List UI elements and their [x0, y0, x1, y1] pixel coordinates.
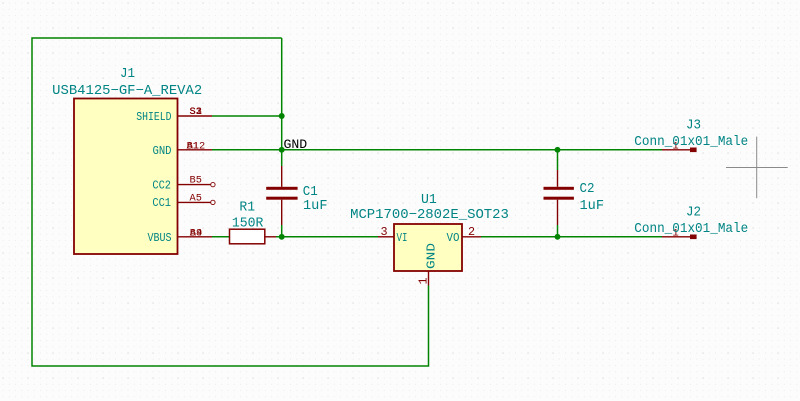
J1 pin SHIELD: [178, 115, 213, 117]
svg-text:Conn_01x01_Male: Conn_01x01_Male: [634, 135, 748, 150]
J1 pin CC2 (unconnected): [178, 184, 211, 186]
svg-text:GND: GND: [153, 144, 172, 158]
wire GND horizontal row: [212, 149, 662, 151]
svg-text:1uF: 1uF: [580, 199, 605, 214]
svg-text:2: 2: [468, 225, 475, 239]
R1 right pin stub: [265, 236, 276, 238]
capacitor C2: [557, 170, 559, 187]
junction GND/C2: [555, 147, 561, 153]
connector J2 pin: [662, 236, 690, 238]
junction VBUS/C1: [279, 234, 285, 240]
junction SHIELD/loop: [279, 113, 285, 119]
wire C1 bottom lead green: [281, 225, 283, 238]
svg-text:VBUS: VBUS: [148, 231, 172, 245]
svg-text:A5: A5: [190, 192, 202, 204]
svg-text:J2: J2: [686, 206, 701, 221]
svg-text:1: 1: [416, 277, 430, 284]
svg-text:S3: S3: [190, 106, 202, 118]
U1 pin 1 GND (bottom): [428, 271, 430, 286]
svg-text:J3: J3: [686, 119, 701, 134]
U1 pin 3 VI: [378, 236, 394, 238]
svg-text:GND: GND: [424, 243, 438, 269]
svg-text:Conn_01x01_Male: Conn_01x01_Male: [634, 222, 748, 237]
U1 pin 2 VO: [462, 236, 481, 238]
svg-text:B5: B5: [190, 175, 202, 187]
wire SHIELD horizontal: [212, 115, 282, 117]
svg-text:CC2: CC2: [152, 178, 171, 192]
svg-text:150R: 150R: [232, 216, 264, 231]
regulator U1 body: [394, 224, 462, 271]
wire vertical x=281.7 from top loop down to C1: [281, 38, 283, 166]
wire C2 top lead green: [557, 150, 559, 170]
wire C2 bottom lead green: [557, 225, 559, 237]
svg-text:A1: A1: [187, 141, 199, 153]
svg-text:R1: R1: [239, 201, 255, 216]
svg-text:VI: VI: [397, 231, 408, 245]
svg-text:A4: A4: [190, 228, 202, 240]
J1 pin VBUS: [178, 236, 213, 238]
svg-text:SHIELD: SHIELD: [136, 110, 171, 124]
connector J1 body: [74, 99, 178, 255]
capacitor C1: [281, 166, 283, 187]
resistor R1: [230, 229, 265, 244]
wire R1 to U1 VI: [276, 236, 378, 238]
svg-text:GND: GND: [284, 137, 308, 152]
svg-text:MCP1700−2802E_SOT23: MCP1700−2802E_SOT23: [350, 208, 509, 223]
svg-text:J1: J1: [120, 67, 135, 82]
svg-text:USB4125−GF−A_REVA2: USB4125−GF−A_REVA2: [52, 84, 202, 99]
junction GND/C1: [279, 147, 285, 153]
J1 pin CC1 (unconnected): [178, 201, 211, 203]
svg-text:U1: U1: [421, 193, 437, 208]
cursor crosshair: [756, 137, 758, 199]
junction VO/C2: [555, 234, 561, 240]
J1 pin GND: [178, 149, 213, 151]
svg-text:1uF: 1uF: [303, 199, 328, 214]
svg-text:VO: VO: [447, 231, 460, 245]
wire loop: top horizontal, left vertical, bottom horizontal, riser to U1 GND: [32, 38, 429, 366]
connector J3 pin: [662, 149, 690, 151]
svg-text:C2: C2: [580, 182, 595, 197]
svg-text:CC1: CC1: [152, 196, 171, 210]
wire U1 VO to J2: [481, 236, 662, 238]
svg-text:3: 3: [380, 225, 387, 239]
wire VBUS to R1: [212, 236, 230, 238]
